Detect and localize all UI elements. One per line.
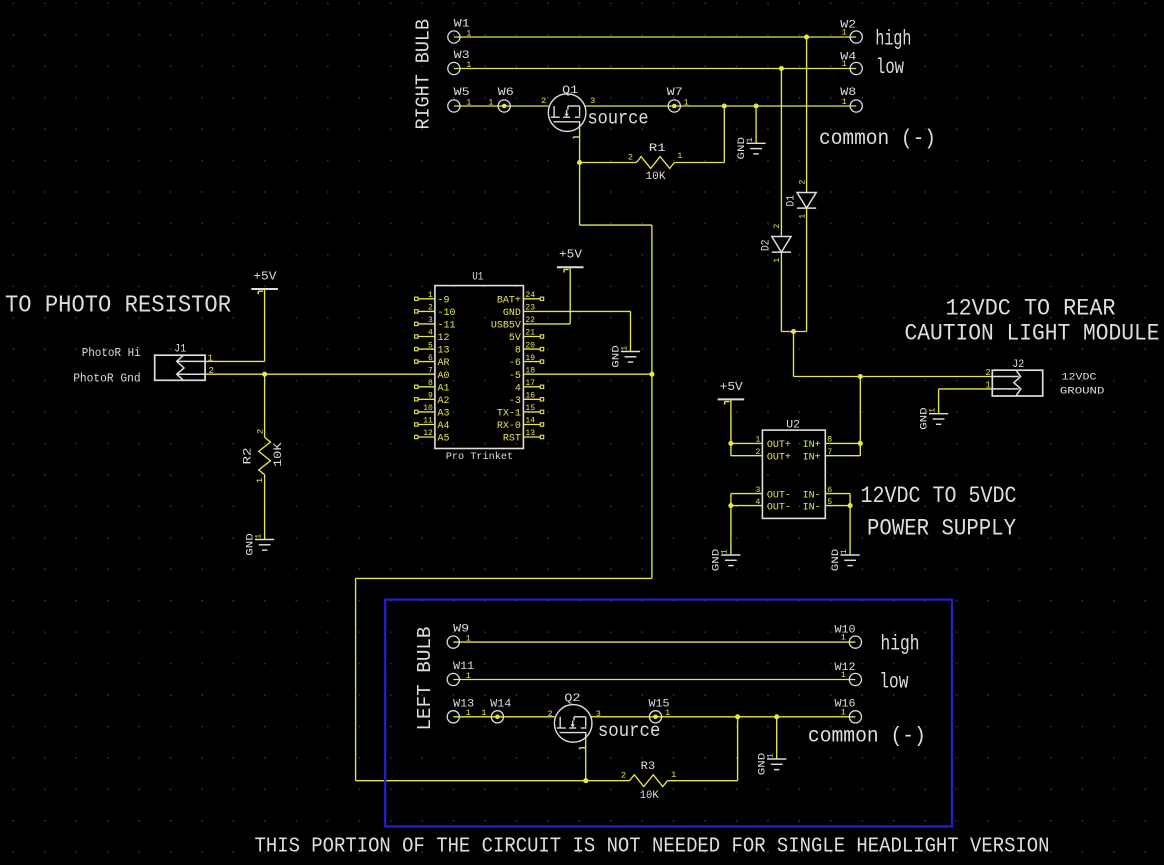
wire end W15 <box>649 711 661 723</box>
wire 12VDC net down <box>793 332 795 377</box>
wire D1 cathode down <box>806 208 808 331</box>
svg-text:W7: W7 <box>667 87 683 99</box>
svg-text:low: low <box>879 671 908 694</box>
svg-text:PhotoR Hi: PhotoR Hi <box>82 347 141 360</box>
svg-text:J2: J2 <box>1012 359 1024 371</box>
wire 12VDC net to J2 pin 2 <box>794 376 993 378</box>
wire gate-drive: Q1 source to dogleg <box>579 163 581 226</box>
svg-text:W14: W14 <box>490 698 511 710</box>
svg-text:A2: A2 <box>438 396 450 407</box>
svg-text:2: 2 <box>547 709 552 719</box>
svg-text:A1: A1 <box>438 383 450 394</box>
U2 pin 8 (IN+) <box>825 442 860 444</box>
svg-text:1: 1 <box>255 478 265 484</box>
module U2 12VDC to 5VDC <box>762 430 825 518</box>
wire common net to GND stub <box>755 106 757 143</box>
svg-text:TO PHOTO RESISTOR: TO PHOTO RESISTOR <box>5 293 231 320</box>
resistor R3 <box>630 775 668 787</box>
svg-text:1: 1 <box>928 408 937 413</box>
wire U1 USB5V pin 22 to +5V <box>523 323 570 325</box>
wire end W9 <box>447 636 459 648</box>
svg-text:D1: D1 <box>786 195 798 207</box>
svg-text:IN-: IN- <box>803 502 821 513</box>
svg-text:PhotoR Gnd: PhotoR Gnd <box>73 373 141 386</box>
svg-text:1: 1 <box>466 671 471 681</box>
ground (U2 OUT-) <box>721 555 740 566</box>
svg-text:-3: -3 <box>509 396 521 407</box>
U1 pin 4 (12) <box>418 336 435 338</box>
svg-text:2: 2 <box>541 96 546 106</box>
svg-text:3: 3 <box>596 709 601 719</box>
svg-text:1: 1 <box>466 634 471 644</box>
ground (left bulb common) <box>767 759 786 770</box>
U1 pin 2 (-10) <box>418 310 435 312</box>
svg-text:J1: J1 <box>174 344 186 356</box>
wire riser 12VDC to U2 IN+ <box>859 377 861 444</box>
svg-text:1: 1 <box>840 549 849 554</box>
U1 pin 3 (-11) <box>418 323 435 325</box>
wire end W11 <box>447 673 459 685</box>
svg-text:1: 1 <box>466 60 471 70</box>
svg-text:1: 1 <box>772 258 782 263</box>
svg-text:9: 9 <box>428 392 433 401</box>
svg-text:1: 1 <box>841 633 846 643</box>
wire W1 to W2 (high net) <box>454 36 856 38</box>
junction GND stub / common net <box>754 103 759 108</box>
junction 12VDC / U2 IN+ riser <box>858 374 863 379</box>
svg-text:2: 2 <box>621 771 626 781</box>
wire end W6 <box>498 100 510 112</box>
junction U2 OUT+ / +5V <box>728 441 733 446</box>
svg-text:19: 19 <box>525 354 535 363</box>
svg-text:1: 1 <box>466 97 471 107</box>
U2 pin 6 (IN-) <box>825 493 850 495</box>
U1 pin 11 (A4) <box>418 424 435 426</box>
wire Q2 drain to W16 (common net) <box>591 716 856 718</box>
svg-text:8: 8 <box>515 346 521 357</box>
svg-text:Q1: Q1 <box>562 85 578 97</box>
svg-text:OUT+: OUT+ <box>767 452 791 463</box>
svg-text:A4: A4 <box>438 421 450 432</box>
wire R2 to ground <box>264 475 266 540</box>
svg-text:common (-): common (-) <box>808 726 926 749</box>
svg-text:12VDC: 12VDC <box>1062 372 1097 384</box>
wire R3 pin 1 to riser <box>668 780 738 782</box>
svg-text:10K: 10K <box>640 790 659 802</box>
svg-text:3: 3 <box>755 486 760 495</box>
wire end W14 <box>491 711 503 723</box>
U1 pin 19 (-6) <box>523 361 540 363</box>
wire end W12 <box>849 673 861 685</box>
single-headlight note box (blue) <box>385 600 952 827</box>
svg-text:1: 1 <box>208 353 213 363</box>
U1 pin 8 (A1) <box>418 386 435 388</box>
wire D2 riser from low net <box>780 69 782 237</box>
svg-text:U1: U1 <box>472 272 483 284</box>
svg-text:1: 1 <box>466 708 471 718</box>
wire U2 OUT+ pins tie <box>730 443 732 455</box>
wire end W1 <box>448 31 460 43</box>
svg-text:OUT-: OUT- <box>767 490 791 501</box>
junction J1 net / R2 <box>262 372 267 377</box>
svg-text:W13: W13 <box>453 698 474 710</box>
svg-text:RIGHT BULB: RIGHT BULB <box>413 19 435 130</box>
svg-text:12: 12 <box>423 429 433 438</box>
svg-text:1: 1 <box>842 27 847 37</box>
svg-text:1: 1 <box>746 137 755 142</box>
junction U2 OUT- / ground <box>728 503 733 508</box>
junction Q2 source / R3 / gate-drive loop <box>583 778 588 783</box>
svg-text:5: 5 <box>428 341 433 350</box>
wire end W7 <box>668 100 680 112</box>
svg-text:1: 1 <box>620 346 629 351</box>
svg-text:RST: RST <box>503 434 521 445</box>
svg-text:-5: -5 <box>509 371 521 382</box>
wire riser R3 to common net <box>737 717 739 781</box>
svg-text:source: source <box>598 720 661 742</box>
svg-text:A0: A0 <box>438 371 450 382</box>
svg-text:Q2: Q2 <box>564 693 580 705</box>
U1 pin 6 (AR) <box>418 361 435 363</box>
U1 pin 5 (13) <box>418 348 435 350</box>
resistor R1 <box>636 157 674 169</box>
U1 pin 12 (A5) <box>418 436 435 438</box>
U1 pin 24 (BAT+) <box>523 298 540 300</box>
junction GND stub / common net (left bulb) <box>774 714 779 719</box>
junction diode cathodes <box>791 329 796 334</box>
svg-text:4: 4 <box>428 329 433 338</box>
wire Q1 drain to W8 (common net) <box>585 105 857 107</box>
wire W3 to W4 (low net) <box>454 68 856 70</box>
wire U2 IN- to ground <box>849 506 851 555</box>
wire end W5 <box>448 100 460 112</box>
svg-text:10K: 10K <box>646 171 666 183</box>
svg-text:2: 2 <box>797 180 807 185</box>
svg-text:8: 8 <box>428 379 433 388</box>
svg-text:1: 1 <box>671 770 676 780</box>
ground (right bulb common) <box>747 143 766 154</box>
svg-text:13: 13 <box>438 346 450 357</box>
wire W5 to Q1 gate <box>454 105 549 107</box>
svg-text:13: 13 <box>525 429 535 438</box>
svg-text:low: low <box>876 57 904 80</box>
svg-text:-9: -9 <box>438 295 450 306</box>
power +5V (J1) <box>251 288 278 290</box>
U2 pin 5 (IN-) <box>825 505 850 507</box>
U1 pin 1 (-9) <box>418 298 435 300</box>
power +5V (U1) <box>557 266 584 268</box>
wire R1 pin 1 to riser <box>674 162 724 164</box>
wire +5V to U2 OUT+ <box>730 399 732 443</box>
svg-text:4: 4 <box>515 383 521 394</box>
svg-text:AR: AR <box>438 358 450 369</box>
svg-text:D2: D2 <box>761 240 773 252</box>
wire U2 IN- pins tie <box>849 494 851 506</box>
U1 pin 14 (RX-0) <box>523 424 540 426</box>
wire common net to GND stub (left bulb) <box>776 717 778 759</box>
svg-text:1: 1 <box>842 97 847 107</box>
svg-text:6: 6 <box>428 354 433 363</box>
svg-text:2: 2 <box>255 429 265 435</box>
U2 pin 7 (IN+) <box>825 455 860 457</box>
ground (U2 IN-) <box>841 555 860 566</box>
svg-text:8: 8 <box>827 436 832 445</box>
wire U2 IN+ pins tie <box>859 443 861 455</box>
svg-text:1: 1 <box>797 214 807 219</box>
svg-text:R2: R2 <box>243 448 255 465</box>
svg-text:high: high <box>881 634 920 657</box>
svg-text:IN-: IN- <box>803 490 821 501</box>
svg-text:1: 1 <box>767 753 776 758</box>
svg-text:RX-0: RX-0 <box>497 421 521 432</box>
svg-text:POWER SUPPLY: POWER SUPPLY <box>867 516 1016 542</box>
svg-text:TX-1: TX-1 <box>497 409 521 420</box>
wire W13 to Q2 gate <box>453 716 554 718</box>
svg-text:3: 3 <box>428 316 433 325</box>
wire end W13 <box>447 711 459 723</box>
svg-text:11: 11 <box>423 417 433 426</box>
svg-text:12VDC TO REAR: 12VDC TO REAR <box>946 296 1116 322</box>
svg-text:2: 2 <box>628 153 633 163</box>
svg-text:12: 12 <box>438 333 450 344</box>
resistor R2 <box>259 437 271 474</box>
U1 pin 20 (8) <box>523 348 540 350</box>
transistor Q2 <box>554 705 592 743</box>
wire U1 -5 pin 18 to gate-drive node <box>523 373 652 375</box>
svg-text:1: 1 <box>488 97 493 107</box>
transistor Q1 <box>548 94 586 132</box>
svg-text:10: 10 <box>423 404 433 413</box>
svg-text:21: 21 <box>525 329 535 338</box>
svg-text:7: 7 <box>428 366 433 375</box>
wire riser R1 to common net <box>723 106 725 163</box>
svg-text:R3: R3 <box>641 761 656 773</box>
svg-text:20: 20 <box>525 341 535 350</box>
wire Q2 source down to R3 junction <box>585 737 587 780</box>
svg-text:10K: 10K <box>273 442 285 467</box>
svg-text:1: 1 <box>466 29 471 39</box>
wire end W10 <box>849 636 861 648</box>
wire end W16 <box>849 711 861 723</box>
svg-text:1: 1 <box>684 97 689 107</box>
svg-text:+5V: +5V <box>253 270 276 283</box>
svg-text:THIS PORTION OF THE CIRCUIT IS: THIS PORTION OF THE CIRCUIT IS NOT NEEDE… <box>255 835 1050 859</box>
wire junction to R3 pin 2 <box>586 780 630 782</box>
wire W11 to W12 (low net) <box>453 679 855 681</box>
ground (U1) <box>621 352 640 363</box>
wire junction to R1 pin 2 <box>580 162 637 164</box>
svg-text:OUT+: OUT+ <box>767 440 791 451</box>
wire D2 cathode down <box>780 252 782 331</box>
junction R3 riser / common net <box>735 714 740 719</box>
wire end W3 <box>448 62 460 74</box>
svg-text:CAUTION LIGHT MODULE: CAUTION LIGHT MODULE <box>905 321 1160 347</box>
svg-text:1: 1 <box>841 670 846 680</box>
svg-text:A3: A3 <box>438 409 450 420</box>
U1 pin 16 (-3) <box>523 398 540 400</box>
svg-text:24: 24 <box>525 291 535 300</box>
svg-text:-10: -10 <box>438 308 456 319</box>
wire junction down to R2 <box>264 374 266 437</box>
svg-text:Pro Trinket: Pro Trinket <box>446 451 514 463</box>
svg-text:15: 15 <box>525 404 535 413</box>
svg-text:14: 14 <box>525 417 535 426</box>
svg-text:USB5V: USB5V <box>491 321 521 332</box>
svg-text:6: 6 <box>827 486 832 495</box>
diode D2 <box>772 237 791 253</box>
wire D1 riser from high net <box>806 37 808 193</box>
junction gate-drive node <box>649 372 654 377</box>
junction on W3-W4 wire at D2 riser <box>779 66 784 71</box>
junction U2 IN+ riser <box>858 441 863 446</box>
wire Q1 source down to R1 junction <box>579 127 581 163</box>
ground (R2) <box>255 540 274 551</box>
svg-text:7: 7 <box>827 448 832 457</box>
U1 pin 21 (5V) <box>523 336 540 338</box>
wire U2 OUT- to ground <box>730 506 732 555</box>
svg-text:2: 2 <box>755 448 760 457</box>
svg-text:GND: GND <box>503 308 521 319</box>
connector J2 <box>992 370 1042 396</box>
IC U1 Pro Trinket <box>435 286 524 449</box>
junction U2 IN- / ground <box>848 503 853 508</box>
U1 pin 13 (RST) <box>523 436 540 438</box>
svg-text:R1: R1 <box>649 143 667 155</box>
U1 pin 15 (TX-1) <box>523 411 540 413</box>
svg-text:12VDC TO 5VDC: 12VDC TO 5VDC <box>861 483 1017 509</box>
U2 pin 2 (OUT+) <box>731 455 763 457</box>
U2 pin 4 (OUT-) <box>731 505 763 507</box>
wire end W4 <box>850 62 862 74</box>
wire J1 pin 2 to U1 A0 <box>205 373 435 375</box>
svg-text:1: 1 <box>677 151 682 161</box>
U2 pin 3 (OUT-) <box>731 493 763 495</box>
wire U2 OUT- pins tie <box>730 494 732 506</box>
wire U1 GND pin 23 to ground <box>523 310 630 312</box>
svg-text:W6: W6 <box>498 87 514 99</box>
svg-text:W11: W11 <box>453 661 474 673</box>
svg-text:5V: 5V <box>509 333 521 344</box>
svg-text:IN+: IN+ <box>803 440 821 451</box>
svg-text:-6: -6 <box>509 358 521 369</box>
U1 pin 10 (A3) <box>418 411 435 413</box>
wire end W8 <box>850 100 862 112</box>
svg-text:A5: A5 <box>438 434 450 445</box>
wire gate-drive down to left bulb loop <box>651 374 653 578</box>
svg-text:17: 17 <box>525 379 535 388</box>
svg-text:LEFT BULB: LEFT BULB <box>414 627 436 731</box>
svg-text:high: high <box>875 29 911 52</box>
junction R1 riser / common net <box>722 103 727 108</box>
svg-text:GROUND: GROUND <box>1060 385 1105 397</box>
svg-text:1: 1 <box>481 708 486 718</box>
svg-text:1: 1 <box>842 59 847 69</box>
svg-text:OUT-: OUT- <box>767 502 791 513</box>
U1 pin 17 (4) <box>523 386 540 388</box>
svg-text:3: 3 <box>590 96 595 106</box>
wire W9 to W10 (high net) <box>453 641 855 643</box>
svg-text:1: 1 <box>841 708 846 718</box>
svg-text:4: 4 <box>755 498 760 507</box>
svg-text:2: 2 <box>985 368 990 378</box>
svg-text:-11: -11 <box>438 321 456 332</box>
svg-text:+5V: +5V <box>720 381 743 394</box>
svg-text:+5V: +5V <box>559 249 582 262</box>
svg-text:1: 1 <box>755 436 760 445</box>
svg-text:1: 1 <box>721 549 730 554</box>
wire J2 pin 1 to ground <box>939 388 993 390</box>
junction Q1 source / R1 <box>577 160 582 165</box>
svg-text:1: 1 <box>254 534 263 539</box>
svg-text:2: 2 <box>772 224 782 229</box>
junction on W1-W2 wire at D1 riser <box>804 34 809 39</box>
power +5V (U2) <box>718 398 745 400</box>
U2 pin 1 (OUT+) <box>731 442 763 444</box>
svg-text:U2: U2 <box>786 420 800 432</box>
U1 pin 9 (A2) <box>418 398 435 400</box>
svg-text:5: 5 <box>827 498 832 507</box>
svg-text:BAT+: BAT+ <box>497 295 521 306</box>
wire joining D1 and D2 cathodes <box>781 331 806 333</box>
wire +5V to J1 pin 1 <box>264 289 266 361</box>
svg-text:IN+: IN+ <box>803 452 821 463</box>
ground (J2) <box>929 414 948 425</box>
svg-text:16: 16 <box>525 392 535 401</box>
diode D1 <box>797 193 816 209</box>
svg-text:common (-): common (-) <box>819 128 936 151</box>
wire end W2 <box>850 31 862 43</box>
connector J1 <box>155 355 205 380</box>
svg-text:source: source <box>588 108 649 130</box>
svg-text:1: 1 <box>428 291 433 300</box>
svg-text:2: 2 <box>428 304 433 313</box>
svg-text:1: 1 <box>665 708 670 718</box>
